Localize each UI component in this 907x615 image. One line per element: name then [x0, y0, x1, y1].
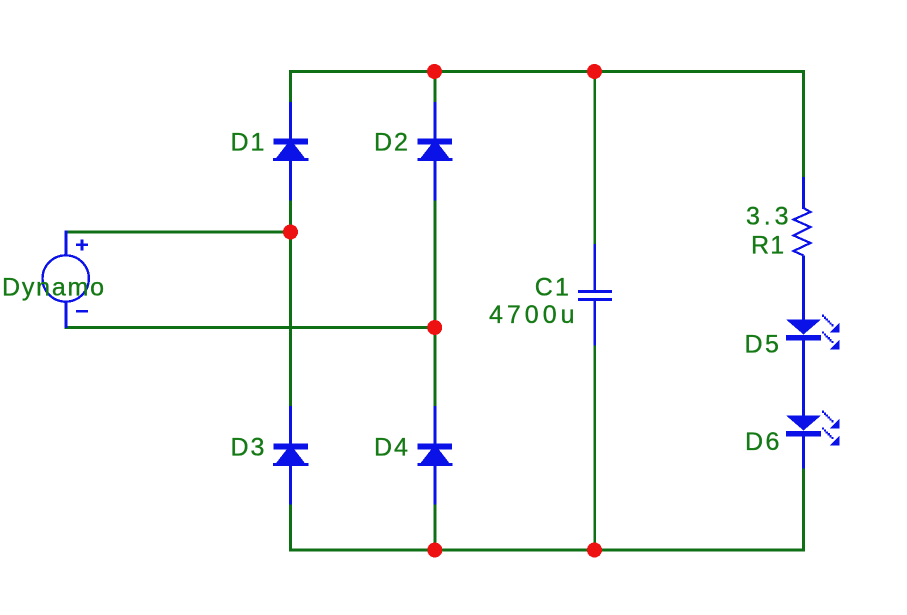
dynamo source V1 — [42, 231, 88, 328]
svg-text:4700u: 4700u — [489, 301, 579, 329]
wire dynamo plus horizontal — [65, 231, 291, 234]
wire right column top segment — [802, 70, 805, 177]
diode D3 — [273, 406, 308, 505]
svg-text:C1: C1 — [535, 274, 571, 302]
LED D5 — [786, 315, 840, 417]
wire left column bottom segment — [289, 504, 292, 550]
svg-text:3.3: 3.3 — [746, 203, 792, 231]
plus terminal mark — [76, 244, 88, 247]
diode D4 — [417, 406, 452, 505]
wire bottom rail — [289, 549, 805, 552]
junction dot top col3 — [587, 64, 602, 79]
diode D1 — [273, 102, 308, 201]
diode D2 — [417, 102, 452, 201]
svg-text:R1: R1 — [751, 232, 785, 260]
wire column3 bottom segment — [594, 345, 597, 550]
minus terminal mark — [76, 310, 88, 313]
wire top rail — [289, 70, 805, 73]
wire left column top segment — [289, 70, 292, 102]
wire column2 top segment — [434, 70, 437, 102]
junction dot top col2 — [427, 64, 442, 79]
resistor R1 — [794, 177, 811, 321]
wire column2 middle segment — [434, 200, 437, 406]
svg-text:D6: D6 — [745, 428, 782, 456]
wire column2 bottom segment — [434, 504, 437, 550]
wire right column bottom segment — [802, 468, 805, 550]
wire dynamo minus horizontal — [65, 326, 436, 329]
LED D6 — [786, 411, 840, 469]
svg-text:D5: D5 — [745, 331, 782, 359]
capacitor C1 — [578, 244, 612, 346]
wire column3 top segment — [594, 70, 597, 244]
junction dot bottom col3 — [587, 543, 602, 558]
svg-text:D1: D1 — [231, 129, 267, 157]
junction dot dynamo minus node — [427, 320, 442, 335]
svg-text:D4: D4 — [374, 434, 410, 462]
svg-text:D2: D2 — [374, 129, 410, 157]
junction dot dynamo plus node — [283, 225, 298, 240]
wire left column middle segment — [289, 200, 292, 406]
svg-text:D3: D3 — [231, 434, 267, 462]
svg-text:Dynamo: Dynamo — [2, 274, 106, 302]
junction dot bottom col2 — [427, 543, 442, 558]
